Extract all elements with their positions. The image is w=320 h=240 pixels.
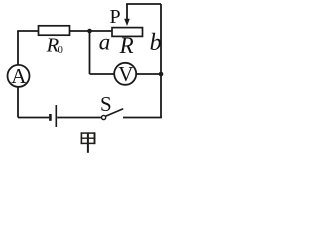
switch S lever — [106, 109, 124, 116]
wire switch to bottom-right — [123, 117, 162, 119]
wire voltmeter right horizontal — [136, 73, 161, 75]
svg-text:a: a — [99, 29, 111, 54]
label jia (CJK 甲 drawn with strokes) — [81, 132, 96, 152]
switch S contact circle — [102, 115, 106, 119]
voltmeter V1 — [114, 63, 136, 85]
wire right vertical — [160, 4, 162, 118]
wire ammeter to battery — [17, 87, 19, 118]
svg-text:V: V — [118, 62, 133, 86]
wire slider to top-right — [126, 3, 161, 5]
svg-text:S: S — [100, 92, 112, 116]
battery negative plate — [49, 114, 52, 121]
svg-text:R: R — [119, 33, 134, 58]
wire bottom-left horizontal — [18, 117, 49, 119]
rheostat slider arrow P — [126, 4, 128, 20]
rheostat R box — [112, 28, 143, 37]
battery positive plate — [55, 105, 57, 127]
ammeter A1 — [8, 65, 30, 87]
node junction dot left — [87, 29, 92, 34]
resistor R0 — [39, 26, 70, 35]
wire battery to switch — [57, 117, 101, 119]
node junction dot right — [159, 72, 164, 77]
wire R0 to rheostat — [70, 30, 113, 32]
wire top-left horizontal — [17, 30, 38, 32]
wire voltmeter branch vertical — [89, 31, 91, 74]
wire voltmeter branch left horizontal — [90, 73, 115, 75]
svg-text:A: A — [11, 64, 27, 88]
svg-text:b: b — [150, 30, 162, 56]
svg-text:0: 0 — [58, 45, 63, 56]
wire left vertical (top) — [17, 31, 19, 65]
svg-text:P: P — [110, 6, 121, 28]
